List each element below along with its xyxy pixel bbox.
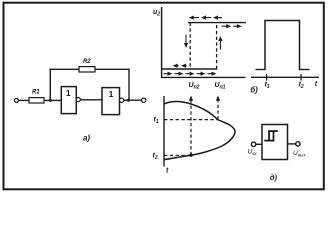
node A junction dot bbox=[49, 99, 52, 102]
pulse plot x-axis bbox=[251, 76, 319, 78]
border frame (decorative) bbox=[4, 3, 324, 190]
output terminal circle of symbol bbox=[296, 142, 300, 146]
dashed vertical to Up2 with up arrow bbox=[189, 96, 193, 156]
dashed level line t2 bbox=[164, 154, 191, 156]
dashed transition at Up1 bbox=[216, 23, 218, 69]
wire feedback down to output node bbox=[128, 69, 130, 101]
input terminal circle of symbol bbox=[251, 142, 255, 146]
wire U1 to U2 bbox=[80, 99, 102, 101]
inversion bubble U2 bbox=[120, 98, 124, 102]
svg-text:Uвых: Uвых bbox=[293, 150, 306, 158]
wire symbol box to output bbox=[288, 143, 296, 145]
right arrows right of high branch bbox=[222, 24, 242, 28]
right arrow row along axis bbox=[164, 72, 217, 76]
hysteresis glyph inside box bbox=[264, 131, 278, 141]
output terminal circle bbox=[142, 98, 146, 102]
wire input to R1 bbox=[19, 99, 30, 101]
hysteresis low branch bbox=[162, 68, 218, 70]
svg-text:u2: u2 bbox=[153, 9, 160, 17]
svg-text:t2: t2 bbox=[153, 153, 158, 162]
input terminal circle bbox=[14, 98, 18, 102]
svg-text:t: t bbox=[315, 81, 318, 88]
pulse waveform bbox=[265, 21, 300, 70]
svg-text:1: 1 bbox=[66, 88, 71, 98]
svg-text:Uп2: Uп2 bbox=[189, 82, 200, 91]
hysteresis plot y-axis bbox=[161, 7, 163, 78]
up arrow beside Up1 bbox=[218, 36, 222, 50]
pulse baseline right bbox=[299, 69, 310, 71]
output node junction dot bbox=[127, 99, 130, 102]
svg-text:t1: t1 bbox=[265, 82, 270, 91]
dashed level line t1 bbox=[164, 119, 218, 121]
wire U2 to output bbox=[124, 99, 142, 101]
svg-text:б): б) bbox=[250, 86, 258, 95]
tick t2 bbox=[300, 74, 302, 81]
svg-text:t2: t2 bbox=[299, 82, 304, 91]
hysteresis plot x-axis bbox=[161, 76, 246, 78]
schmitt symbol box U3 bbox=[262, 125, 288, 160]
down arrow beside Up2 bbox=[184, 35, 188, 49]
left arrows above low branch bbox=[173, 64, 187, 68]
dashed transition at Up2 bbox=[189, 23, 191, 69]
feedback wire top right bbox=[95, 68, 130, 70]
hysteresis high branch bbox=[188, 22, 246, 24]
inverter gate U1 bbox=[61, 87, 76, 114]
svg-text:д): д) bbox=[270, 173, 278, 182]
svg-text:Uвх: Uвх bbox=[248, 149, 258, 157]
svg-text:R1: R1 bbox=[32, 89, 40, 95]
left arrows above high branch bbox=[189, 16, 222, 20]
svg-text:1: 1 bbox=[109, 89, 114, 99]
input signal curve u1(t) bbox=[164, 102, 235, 160]
tick t1 bbox=[266, 74, 268, 81]
wire input to symbol box bbox=[256, 143, 262, 145]
pulse baseline left bbox=[256, 69, 266, 71]
resistor R2 bbox=[79, 67, 95, 72]
feedback wire top left bbox=[50, 68, 79, 70]
dashed vertical to Up1 with up arrow bbox=[216, 96, 220, 120]
svg-text:Uп1: Uп1 bbox=[215, 82, 226, 91]
input signal plot t-axis (downward) bbox=[163, 96, 165, 167]
inverter gate U2 bbox=[102, 88, 120, 115]
svg-text:R2: R2 bbox=[83, 59, 91, 65]
svg-text:t: t bbox=[166, 168, 169, 175]
resistor R1 bbox=[29, 98, 44, 103]
svg-text:t1: t1 bbox=[154, 117, 159, 126]
svg-text:а): а) bbox=[83, 134, 90, 143]
wire R1 to gate U1 bbox=[44, 99, 61, 101]
crossing dot at t2 bbox=[189, 153, 193, 157]
wire node A up to feedback bbox=[49, 69, 51, 101]
inversion bubble U1 bbox=[76, 98, 80, 102]
